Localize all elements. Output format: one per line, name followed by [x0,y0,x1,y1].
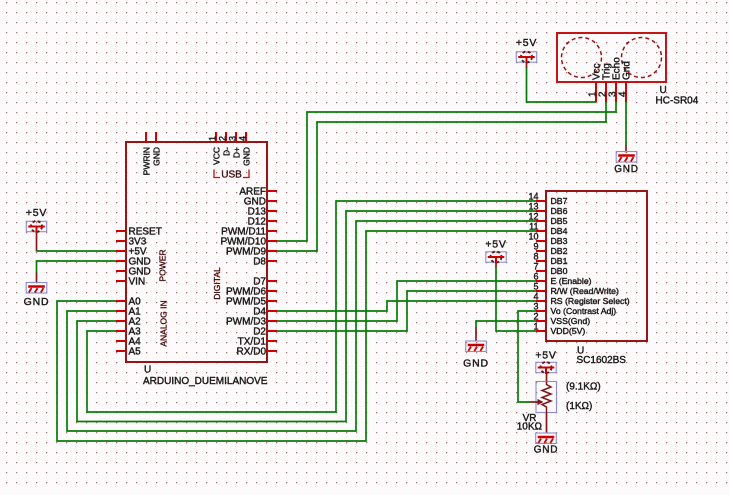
svg-text:10KΩ: 10KΩ [517,422,543,433]
svg-text:VDD(5V): VDD(5V) [551,326,586,336]
svg-text:D8: D8 [253,257,266,268]
pin DB0 (SC1602BS pin 7) [533,262,567,277]
pin AREF (right, y=191) [239,187,277,198]
wire net D2 to R/W [277,291,536,331]
ground GND below potentiometer [534,433,559,456]
svg-text:GND: GND [24,296,50,308]
svg-text:DB6: DB6 [551,206,568,216]
pin VSS(Gnd) (SC1602BS pin 2) [533,312,590,327]
pin D2 (right, y=331) [253,327,277,338]
pin DB6 (SC1602BS pin 13) [528,202,567,217]
svg-text:D-: D- [222,147,232,156]
pin DB5 (SC1602BS pin 12) [528,212,567,227]
svg-text:(9.1KΩ): (9.1KΩ) [566,382,601,393]
pin PWRIN (top) [142,132,152,175]
svg-text:11: 11 [529,222,538,232]
pin DB7 (SC1602BS pin 14) [528,192,567,207]
wiper arrow [530,401,539,403]
svg-text:GND: GND [614,164,639,175]
svg-text:3: 3 [533,302,538,312]
ground GND below-left of SC1602BS [463,341,489,370]
pin PWM/D6 (right, y=291) [226,287,277,298]
wire net A0 to DB4 [57,231,536,441]
value SC1602BS [577,355,627,366]
pin GND (top) [152,132,162,166]
svg-text:D+: D+ [232,147,242,158]
pin VDD(5V) (SC1602BS pin 1) [533,322,585,337]
wire HC-SR04 Gnd to GND [625,102,627,146]
pin A1 (left, y=311) [116,307,141,318]
value HC-SR04 [656,96,699,107]
svg-text:GND: GND [242,147,252,166]
svg-text:14: 14 [528,192,538,202]
svg-text:GND: GND [534,445,559,456]
svg-text:POWER: POWER [158,249,168,281]
ground GND below HC-SR04 [625,102,627,153]
value (1K&#937;) [566,401,592,412]
pin DB2 (SC1602BS pin 9) [533,242,567,257]
svg-text:8: 8 [533,252,538,262]
svg-text:R/W (Read/Write): R/W (Read/Write) [551,286,619,296]
pin RX/D0 (right, y=351) [237,347,277,358]
svg-text:Gnd: Gnd [622,61,633,80]
pin D- (USB, pin 2) [218,132,232,156]
pin DB3 (SC1602BS pin 10) [528,232,567,247]
+5V supply near HC-SR04 [516,37,537,64]
value 10K&#937; [517,422,543,433]
svg-text:E (Enable): E (Enable) [551,276,592,286]
wire net A2 to DB6 [77,211,536,422]
pin VCC (USB, pin 1) [208,132,222,165]
svg-text:DB4: DB4 [551,226,568,236]
svg-text:3: 3 [228,136,238,141]
svg-text:RS (Register Select): RS (Register Select) [551,296,630,306]
svg-text:12: 12 [528,212,538,222]
svg-text:Vo (Contrast Adj): Vo (Contrast Adj) [551,306,617,316]
svg-text:4: 4 [238,136,248,141]
svg-text:+5V: +5V [485,239,506,251]
wire net A3 to DB7 [87,201,536,412]
LCD U SC1602BS body [546,191,647,341]
pin DB1 (SC1602BS pin 8) [533,252,567,267]
pin Echo (HC-SR04 pin 3) [608,57,623,102]
wire +5V to HC-SR04 Vcc [527,62,597,102]
svg-text:DB0: DB0 [551,266,568,276]
svg-text:2: 2 [218,136,228,141]
svg-text:DIGITAL: DIGITAL [212,267,222,300]
svg-text:9: 9 [533,242,538,252]
refdes U (Arduino) [144,365,151,376]
pin DB4 (SC1602BS pin 11) [529,222,567,237]
wire +5V to VDD(5V) [496,263,536,332]
svg-text:7: 7 [533,262,538,272]
svg-text:VSS(Gnd): VSS(Gnd) [551,316,591,326]
svg-text:+5V: +5V [26,207,47,219]
svg-text:ARDUINO_DUEMILANOVE: ARDUINO_DUEMILANOVE [143,376,268,387]
svg-text:+5V: +5V [535,350,556,362]
wire Vo (Contrast Adj) to wiper [518,311,536,402]
svg-text:HC-SR04: HC-SR04 [656,96,699,107]
value (9.1K&#937;) [566,382,601,393]
transducer circle left [562,38,602,78]
pin A2 (left, y=321) [116,317,141,328]
svg-text:DB1: DB1 [551,256,568,266]
pin TX/D1 (right, y=341) [238,337,277,348]
pin Gnd (HC-SR04 pin 4) [618,61,633,102]
svg-text:RX/D0: RX/D0 [237,347,267,358]
wire VSS(Gnd) to GND [476,321,536,342]
svg-text:U: U [144,365,151,376]
pin RS (Register Select) (SC1602BS pin 4) [533,292,629,307]
svg-text:U: U [660,85,667,96]
pin A3 (left, y=331) [116,327,141,338]
svg-text:GND: GND [152,147,162,166]
wire net A1 to DB5 [67,221,536,431]
ground GND left of Arduino [24,283,50,309]
svg-text:A5: A5 [129,347,142,358]
pin D13 (right, y=211) [248,207,277,218]
pin Vo (Contrast Adj) (SC1602BS pin 3) [533,302,616,317]
svg-text:+5V: +5V [516,37,537,49]
svg-text:6: 6 [533,272,538,282]
+5V supply left of SC1602BS [485,239,506,264]
svg-text:(1KΩ): (1KΩ) [566,401,592,412]
svg-text:USB: USB [221,170,242,181]
group label DIGITAL [212,267,222,300]
pin GND (left, y=261) [116,257,151,268]
pin A5 (left, y=351) [116,347,141,358]
wire +5V to Arduino +5V pin [37,232,117,252]
pin PWM/D3 (right, y=321) [226,317,277,328]
pin D7 (right, y=281) [253,277,277,288]
transducer circle right [622,38,662,78]
svg-text:VIN: VIN [129,277,146,288]
pin D+ (USB, pin 3) [228,132,242,158]
pin Vcc (HC-SR04 pin 1) [588,63,603,102]
pin R/W (Read/Write) (SC1602BS pin 5) [533,282,619,297]
refdes U (HC-SR04) [660,85,667,96]
pin RESET (left, y=231) [116,227,162,238]
pin D12 (right, y=221) [248,217,277,228]
+5V supply left of Arduino [26,207,47,233]
sensor U HC-SR04 body [557,33,666,82]
pin PWM/D11 (right, y=231) [221,227,277,238]
svg-text:SC1602BS: SC1602BS [577,355,627,366]
pin GND (left, y=271) [116,267,151,278]
wire net D4 to RS [277,301,536,311]
svg-text:DB3: DB3 [551,236,568,246]
svg-text:5: 5 [533,282,538,292]
+5V supply above potentiometer [535,350,556,375]
svg-text:10: 10 [528,232,538,242]
svg-text:ANALOG IN: ANALOG IN [159,300,169,346]
value ARDUINO_DUEMILANOVE [143,376,268,387]
pin +5V (left, y=251) [116,247,147,258]
svg-text:4: 4 [618,91,629,97]
pin PWM/D5 (right, y=301) [226,297,277,308]
svg-text:2: 2 [533,312,538,322]
wire Arduino GND pin to GND [37,261,117,283]
pin D8 (right, y=261) [253,257,277,268]
group label ANALOG IN [159,300,169,346]
svg-text:13: 13 [528,202,538,212]
pin Trig (HC-SR04 pin 2) [598,63,613,102]
pin PWM/D10 (right, y=241) [220,237,277,248]
svg-text:PWRIN: PWRIN [142,147,152,175]
svg-text:1: 1 [533,322,538,332]
wire net PWM/D3 to E [277,281,536,321]
label USB [214,170,249,181]
pin E (Enable) (SC1602BS pin 6) [533,272,591,287]
svg-text:DB2: DB2 [551,246,568,256]
pin D4 (right, y=311) [253,307,277,318]
pin GND (USB, pin 4) [238,132,252,166]
wire potentiometer bottom to GND [546,413,548,434]
svg-text:DB7: DB7 [551,196,568,206]
svg-text:4: 4 [533,292,538,302]
svg-text:DB5: DB5 [551,216,568,226]
pin 3V3 (left, y=241) [116,237,147,248]
pin VIN (left, y=281) [116,277,145,288]
op IC U ARDUINO_DUEMILANOVE body [126,142,267,362]
refdes U (SC1602BS) [577,346,584,357]
pin A4 (left, y=341) [116,337,141,348]
wire +5V to potentiometer top [546,373,548,382]
wire net Echo: HC-SR04 Echo to PWM/D10 [277,102,616,241]
wire net Trig: HC-SR04 Trig to PWM/D9 [277,102,606,251]
svg-text:GND: GND [463,358,489,370]
pin PWM/D9 (right, y=251) [226,247,277,258]
svg-text:VCC: VCC [212,147,222,165]
pin GND (right, y=201) [244,197,277,208]
svg-text:1: 1 [208,136,218,141]
label VR [523,413,537,424]
pin A0 (left, y=301) [116,297,141,308]
group label POWER [158,249,168,281]
potentiometer VR 10K body [530,382,557,413]
